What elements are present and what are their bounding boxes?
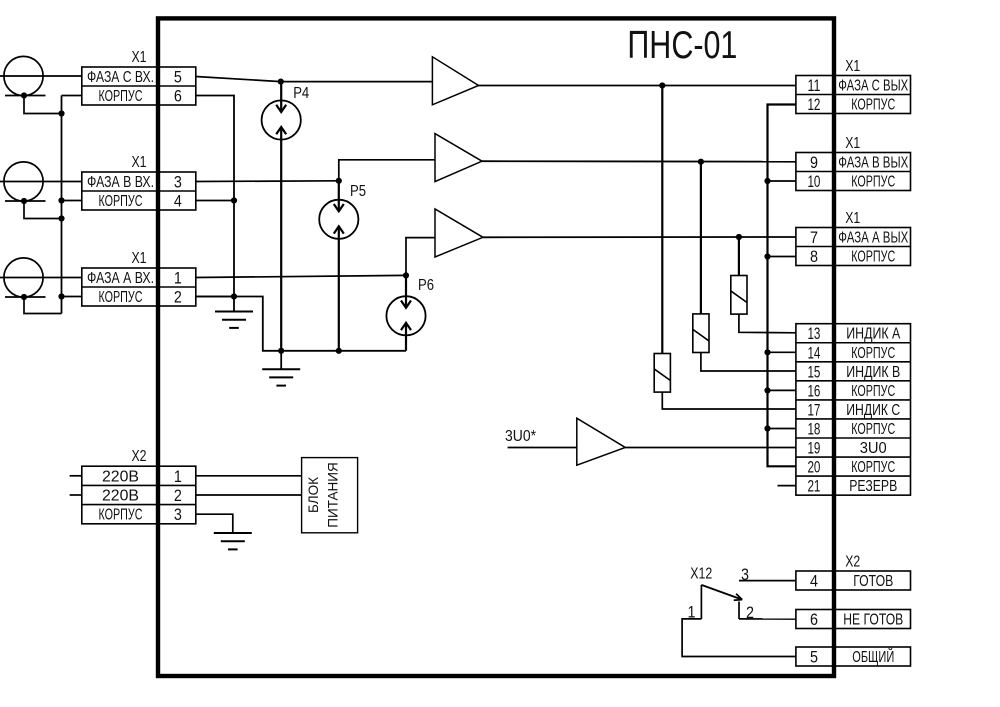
svg-text:1: 1 xyxy=(174,467,182,486)
svg-text:ФАЗА В ВЫХ: ФАЗА В ВЫХ xyxy=(838,155,908,172)
svg-text:ПИТАНИЯ: ПИТАНИЯ xyxy=(326,462,341,527)
svg-text:X1: X1 xyxy=(132,49,147,66)
svg-text:17: 17 xyxy=(807,400,820,419)
svg-text:X1: X1 xyxy=(132,250,147,267)
svg-text:3U0*: 3U0* xyxy=(505,428,536,445)
svg-text:220В: 220В xyxy=(102,488,139,505)
svg-text:9: 9 xyxy=(810,153,818,172)
svg-text:ГОТОВ: ГОТОВ xyxy=(853,573,893,590)
svg-text:ФАЗА С ВЫХ: ФАЗА С ВЫХ xyxy=(838,78,908,95)
svg-text:16: 16 xyxy=(807,381,820,400)
svg-text:КОРПУС: КОРПУС xyxy=(851,174,895,191)
svg-text:18: 18 xyxy=(807,419,820,438)
svg-text:10: 10 xyxy=(807,172,820,191)
svg-text:5: 5 xyxy=(174,68,182,87)
svg-text:6: 6 xyxy=(810,610,818,629)
svg-text:P6: P6 xyxy=(418,277,434,294)
svg-text:6: 6 xyxy=(174,87,182,106)
svg-text:ФАЗА А ВХ.: ФАЗА А ВХ. xyxy=(87,270,154,287)
svg-text:ФАЗА С ВХ.: ФАЗА С ВХ. xyxy=(87,69,154,86)
svg-text:X1: X1 xyxy=(132,154,147,171)
svg-text:P4: P4 xyxy=(293,85,309,102)
svg-text:ПНС-01: ПНС-01 xyxy=(627,24,737,67)
svg-text:КОРПУС: КОРПУС xyxy=(99,193,143,210)
svg-text:14: 14 xyxy=(807,343,820,362)
svg-text:12: 12 xyxy=(807,95,820,114)
svg-text:КОРПУС: КОРПУС xyxy=(99,88,143,105)
svg-text:X2: X2 xyxy=(845,554,860,571)
svg-text:КОРПУС: КОРПУС xyxy=(851,249,895,266)
svg-text:БЛОК: БЛОК xyxy=(306,477,321,513)
svg-text:3U0: 3U0 xyxy=(860,440,887,457)
svg-text:7: 7 xyxy=(810,228,818,247)
svg-text:4: 4 xyxy=(174,192,182,211)
svg-text:РЕЗЕРВ: РЕЗЕРВ xyxy=(849,478,897,495)
svg-text:ФАЗА В ВХ.: ФАЗА В ВХ. xyxy=(87,174,154,191)
svg-text:220В: 220В xyxy=(102,468,139,485)
svg-text:КОРПУС: КОРПУС xyxy=(851,421,895,438)
svg-text:21: 21 xyxy=(807,477,820,496)
svg-text:ИНДИК А: ИНДИК А xyxy=(846,326,901,343)
svg-text:КОРПУС: КОРПУС xyxy=(99,507,143,524)
svg-text:2: 2 xyxy=(174,288,182,307)
svg-text:ОБЩИЙ: ОБЩИЙ xyxy=(852,648,894,666)
svg-text:1: 1 xyxy=(174,269,182,288)
svg-text:2: 2 xyxy=(174,486,182,505)
svg-text:P5: P5 xyxy=(350,183,366,200)
svg-text:X1: X1 xyxy=(845,135,860,152)
svg-text:20: 20 xyxy=(807,458,820,477)
svg-text:X1: X1 xyxy=(845,58,860,75)
svg-text:X1: X1 xyxy=(845,210,860,227)
svg-text:НЕ ГОТОВ: НЕ ГОТОВ xyxy=(843,612,903,629)
svg-text:11: 11 xyxy=(807,76,820,95)
svg-text:4: 4 xyxy=(810,572,818,591)
svg-text:ИНДИК С: ИНДИК С xyxy=(846,402,900,419)
svg-text:КОРПУС: КОРПУС xyxy=(851,459,895,476)
svg-text:ФАЗА А ВЫХ: ФАЗА А ВЫХ xyxy=(838,230,908,247)
svg-text:19: 19 xyxy=(807,439,820,458)
svg-text:КОРПУС: КОРПУС xyxy=(851,345,895,362)
svg-text:15: 15 xyxy=(807,362,820,381)
svg-text:3: 3 xyxy=(174,505,182,524)
svg-text:ИНДИК В: ИНДИК В xyxy=(846,364,900,381)
svg-text:8: 8 xyxy=(810,247,818,266)
svg-text:КОРПУС: КОРПУС xyxy=(851,383,895,400)
svg-text:КОРПУС: КОРПУС xyxy=(99,289,143,306)
svg-text:X2: X2 xyxy=(132,448,147,465)
svg-text:X12: X12 xyxy=(690,566,712,583)
svg-text:5: 5 xyxy=(810,648,818,667)
svg-text:КОРПУС: КОРПУС xyxy=(851,97,895,114)
svg-text:3: 3 xyxy=(174,173,182,192)
svg-text:13: 13 xyxy=(807,324,820,343)
